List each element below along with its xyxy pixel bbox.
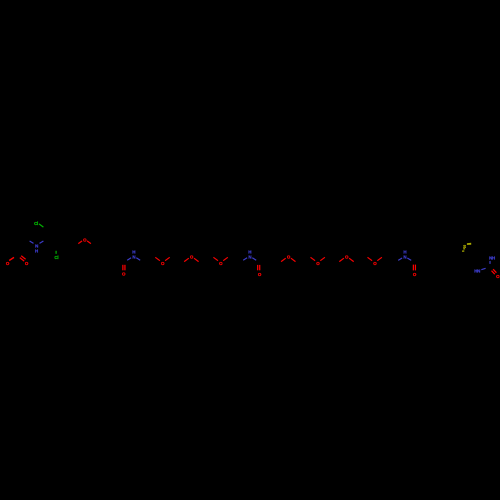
- PEG ether O-c right half-bond: [223, 257, 228, 260]
- amide2 C=O double bond half near O: [257, 265, 259, 270]
- PEG ether O-f left half-bond: [339, 258, 344, 261]
- PEG ether O-b left half-bond: [184, 258, 189, 261]
- svg-text:Cl: Cl: [54, 255, 58, 260]
- carboxyl C=O double bond half near O: [20, 258, 24, 262]
- svg-text:O: O: [316, 261, 320, 266]
- bond N1-CH2 half near N: [136, 258, 140, 260]
- svg-text:O: O: [83, 237, 87, 242]
- PEG ether O-d right half-bond: [291, 258, 296, 261]
- biotin S-C hashed bond half near S: [463, 248, 465, 250]
- svg-text:O: O: [413, 272, 417, 277]
- PEG ether O-g right half-bond: [377, 257, 382, 260]
- amide1 C=O double bond half near O: [122, 265, 124, 271]
- PEG ether O-f right half-bond: [349, 258, 354, 261]
- svg-text:N: N: [132, 255, 135, 260]
- bond etherO-CH2 half near O: [87, 241, 91, 244]
- PEG ether O-a right half-bond: [165, 257, 170, 260]
- PEG ether O-e left half-bond: [311, 257, 316, 260]
- bond O-C(carboxyl) half near O: [9, 257, 14, 260]
- bond N-ringA half near N: [30, 241, 34, 243]
- svg-text:O: O: [287, 255, 291, 260]
- svg-text:NH: NH: [489, 256, 495, 261]
- bond N2-C(=O) half near N: [252, 258, 256, 260]
- PEG ether O-c left half-bond: [213, 257, 218, 260]
- bond N3-CH2 half near N: [398, 258, 402, 260]
- svg-text:O: O: [345, 255, 349, 260]
- svg-text:O: O: [496, 274, 500, 279]
- svg-text:O: O: [6, 261, 10, 266]
- PEG ether O-e right half-bond: [320, 257, 325, 260]
- bond N1-C(=O) half near N: [127, 258, 131, 260]
- svg-text:O: O: [373, 261, 377, 266]
- svg-text:O: O: [122, 272, 126, 277]
- PEG ether O-b right half-bond: [194, 258, 199, 261]
- svg-text:O: O: [25, 261, 29, 266]
- svg-text:HN: HN: [474, 269, 480, 274]
- svg-text:O: O: [258, 272, 262, 277]
- amide3 C=O double bond half near O: [412, 265, 414, 271]
- bond NH-C(=O) half near N: [489, 261, 491, 264]
- bond N2-CH2 half near N: [243, 258, 247, 260]
- svg-text:O: O: [161, 261, 165, 266]
- bond N-ringB half near N: [40, 241, 44, 243]
- PEG ether O-a left half-bond: [155, 257, 160, 260]
- svg-text:N: N: [403, 255, 406, 260]
- bond Cl1-ring half near Cl: [39, 224, 43, 227]
- svg-text:Cl: Cl: [34, 221, 38, 226]
- svg-text:N: N: [248, 255, 251, 260]
- svg-text:O: O: [219, 261, 223, 266]
- biotin C=O double bond half near O: [492, 271, 495, 275]
- bond etherO-ring half near O: [78, 241, 82, 244]
- svg-text:H: H: [35, 249, 38, 254]
- PEG ether O-d left half-bond: [281, 258, 286, 261]
- PEG ether O-g left half-bond: [368, 257, 373, 260]
- bond N3-C(=O) half near N: [407, 258, 411, 260]
- svg-text:O: O: [190, 255, 194, 260]
- bond HN-C(=O) half near N: [481, 268, 485, 269]
- bond Cl2-ring half near Cl: [55, 251, 57, 254]
- biotin S-C wedge bond half near S: [467, 243, 471, 245]
